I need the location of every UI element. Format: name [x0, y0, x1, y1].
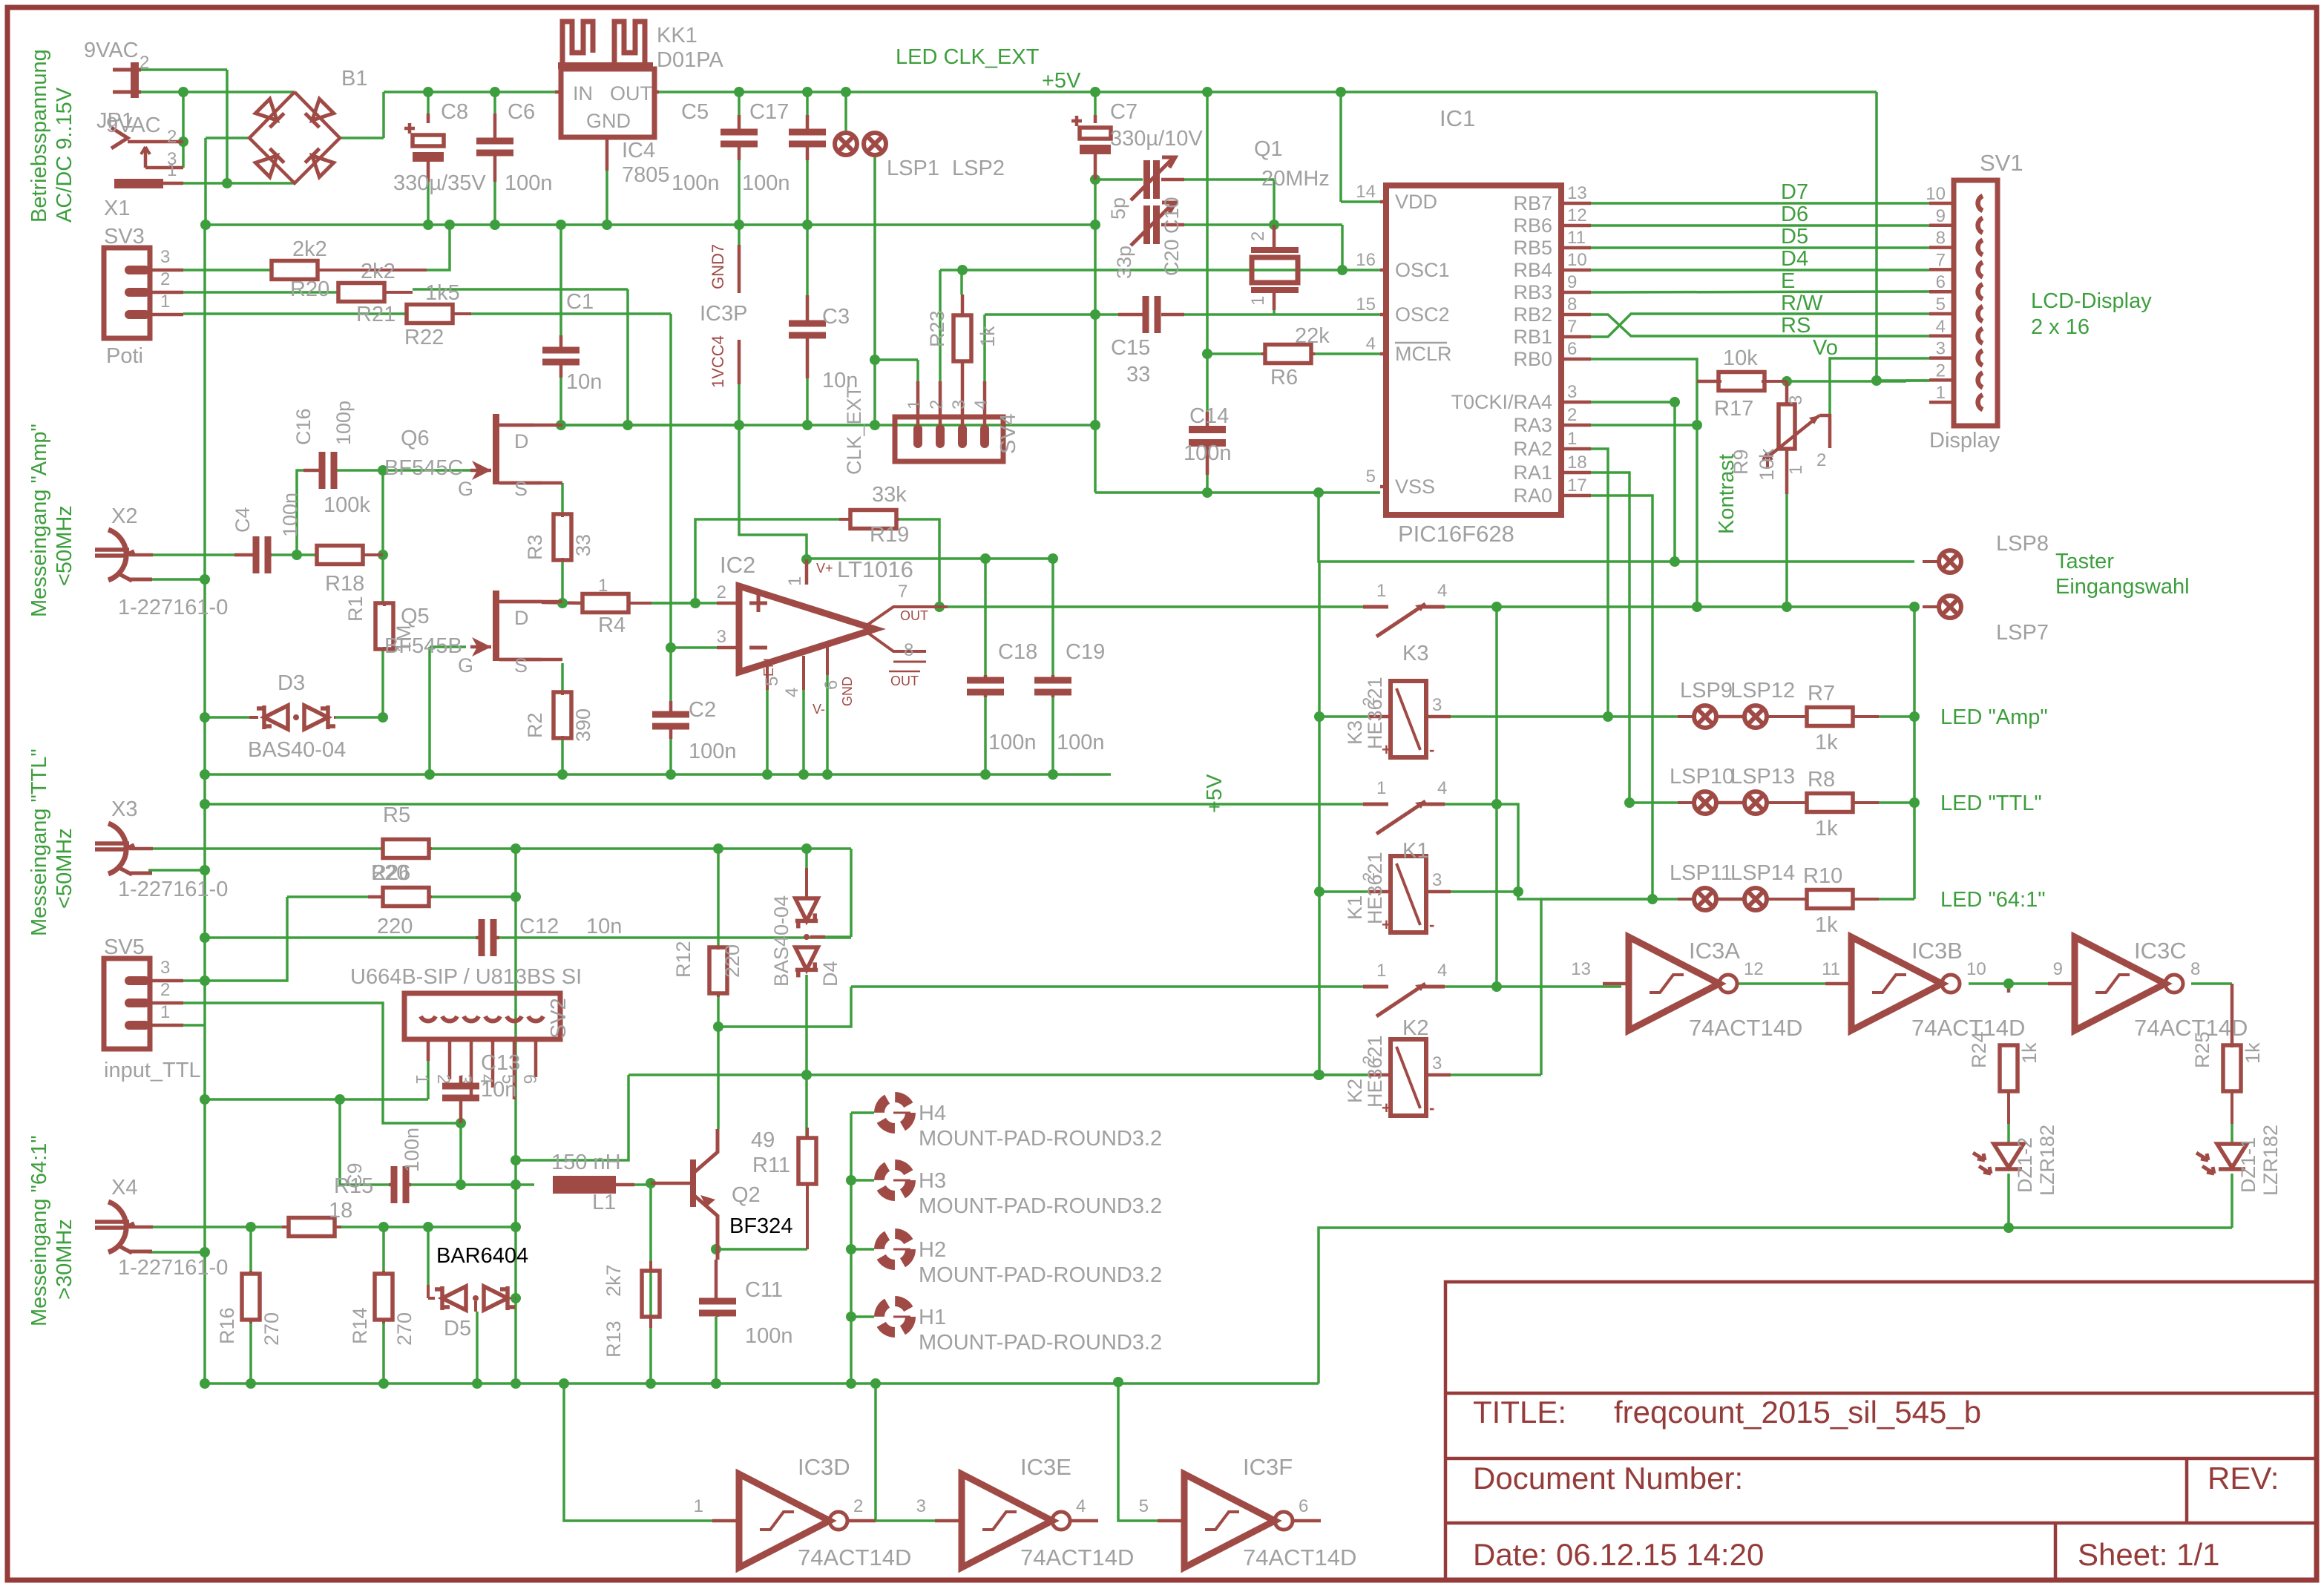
svg-text:3: 3 [1432, 695, 1442, 715]
resistor R26 [383, 888, 429, 907]
LED DZ1-1 [2217, 1144, 2247, 1168]
svg-text:3: 3 [1786, 395, 1806, 405]
svg-text:EN: EN [761, 658, 776, 677]
svg-text:R25: R25 [2191, 1031, 2213, 1068]
svg-text:Betriebsspannung: Betriebsspannung [27, 49, 51, 223]
svg-text:9VAC: 9VAC [106, 113, 161, 137]
inverter IC3B [1851, 937, 1942, 1030]
svg-text:74ACT14D: 74ACT14D [1020, 1544, 1134, 1570]
svg-text:1-227161-0: 1-227161-0 [118, 596, 228, 619]
svg-text:IC4: IC4 [622, 139, 655, 162]
svg-text:RS: RS [1781, 314, 1811, 338]
svg-text:13: 13 [1567, 183, 1587, 203]
svg-text:4: 4 [1437, 961, 1447, 981]
svg-text:C2: C2 [689, 698, 716, 722]
resistor R4 [582, 594, 628, 613]
svg-text:Messeingang "TTL": Messeingang "TTL" [27, 749, 51, 936]
svg-text:100n: 100n [672, 171, 720, 195]
svg-text:9: 9 [2053, 959, 2063, 979]
svg-text:R10: R10 [1803, 864, 1842, 888]
svg-text:11: 11 [1567, 228, 1586, 248]
regulator IC4 [561, 69, 654, 137]
svg-text:R5: R5 [383, 803, 410, 827]
inverter input stubs [1603, 982, 1629, 986]
relay coil K3 [1391, 681, 1426, 757]
svg-text:OUT: OUT [890, 674, 919, 688]
diode D3 [264, 705, 288, 729]
title block [1445, 1282, 2317, 1580]
svg-text:Messeingang "Amp": Messeingang "Amp" [27, 424, 51, 617]
svg-text:G: G [458, 654, 473, 677]
svg-text:RA3: RA3 [1513, 414, 1552, 436]
svg-text:H3: H3 [919, 1169, 946, 1193]
switch K2 [1363, 985, 1388, 989]
svg-text:3: 3 [916, 1496, 926, 1516]
svg-text:LZR182: LZR182 [2259, 1125, 2282, 1196]
svg-text:R/W: R/W [1781, 292, 1823, 315]
svg-text:4: 4 [1437, 581, 1447, 601]
svg-text:REV:: REV: [2208, 1461, 2279, 1496]
svg-text:BAS40-04: BAS40-04 [770, 895, 792, 987]
svg-text:Q5: Q5 [401, 605, 430, 628]
svg-text:100n: 100n [689, 740, 737, 763]
svg-text:LSP2: LSP2 [952, 157, 1005, 180]
transistor Q5 [493, 590, 499, 661]
svg-text:1: 1 [694, 1496, 703, 1516]
svg-text:1: 1 [1567, 429, 1577, 449]
connector X3 [108, 823, 126, 874]
svg-text:C7: C7 [1110, 100, 1138, 124]
resistor R25 [2223, 1045, 2241, 1091]
svg-text:RB5: RB5 [1513, 237, 1552, 259]
svg-text:100n: 100n [401, 1128, 423, 1172]
svg-text:Q6: Q6 [401, 427, 430, 450]
svg-text:12: 12 [1567, 205, 1587, 226]
resistor R23 [953, 315, 971, 361]
svg-text:LSP14: LSP14 [1730, 861, 1795, 885]
svg-text:R15: R15 [334, 1174, 373, 1198]
svg-text:R13: R13 [603, 1320, 625, 1358]
svg-text:1k: 1k [1815, 817, 1838, 840]
svg-text:2: 2 [717, 582, 726, 602]
svg-text:18: 18 [1567, 453, 1587, 473]
resistor R19 [850, 510, 896, 529]
svg-text:Date: 06.12.15 14:20: Date: 06.12.15 14:20 [1473, 1537, 1764, 1572]
svg-text:R6: R6 [1270, 366, 1298, 389]
svg-text:1: 1 [1248, 296, 1268, 306]
svg-text:12: 12 [1744, 959, 1764, 979]
svg-text:15: 15 [1356, 295, 1376, 315]
svg-text:LSP11: LSP11 [1670, 861, 1733, 885]
svg-text:RB1: RB1 [1513, 326, 1552, 348]
svg-text:4: 4 [1437, 778, 1447, 798]
svg-text:+5V: +5V [1042, 69, 1081, 93]
svg-text:1k: 1k [2242, 1042, 2264, 1064]
svg-text:T0CKI/RA4: T0CKI/RA4 [1451, 391, 1552, 413]
svg-text:K3: K3 [1344, 720, 1366, 745]
svg-text:1: 1 [1936, 383, 1946, 403]
svg-text:input_TTL: input_TTL [104, 1059, 201, 1082]
svg-text:9VAC: 9VAC [84, 39, 139, 62]
svg-text:K2: K2 [1402, 1016, 1428, 1040]
svg-text:C18: C18 [998, 640, 1037, 664]
svg-text:D: D [514, 607, 529, 629]
svg-text:220: 220 [372, 861, 408, 885]
svg-text:IC3E: IC3E [1020, 1454, 1071, 1480]
svg-text:2k7: 2k7 [603, 1264, 625, 1297]
svg-text:HE3621: HE3621 [1364, 852, 1386, 924]
switch K1 [1363, 803, 1388, 806]
svg-text:MOUNT-PAD-ROUND3.2: MOUNT-PAD-ROUND3.2 [919, 1331, 1162, 1355]
svg-text:X3: X3 [111, 797, 137, 821]
svg-text:2: 2 [1816, 450, 1826, 470]
svg-text:100k: 100k [324, 493, 370, 517]
svg-text:D4: D4 [819, 961, 841, 987]
svg-text:7805: 7805 [622, 163, 670, 187]
svg-text:CLK_EXT: CLK_EXT [843, 386, 865, 475]
svg-text:4: 4 [1936, 317, 1946, 337]
svg-text:3: 3 [1567, 382, 1577, 402]
svg-text:S: S [514, 654, 528, 677]
resistor R11 [798, 1138, 816, 1184]
svg-text:IC3D: IC3D [798, 1454, 850, 1480]
svg-text:Messeingang "64:1": Messeingang "64:1" [27, 1135, 51, 1326]
svg-text:RB4: RB4 [1513, 259, 1552, 281]
svg-text:LSP8: LSP8 [1996, 532, 2049, 556]
svg-text:5: 5 [1936, 295, 1946, 315]
svg-text:RA1: RA1 [1513, 461, 1552, 484]
svg-text:V+: V+ [816, 561, 833, 576]
svg-text:C17: C17 [749, 100, 789, 124]
svg-text:2: 2 [1936, 361, 1946, 381]
svg-text:-: - [1429, 1099, 1434, 1117]
svg-text:2: 2 [167, 127, 177, 147]
svg-text:1: 1 [785, 576, 805, 586]
diode D4 [795, 898, 818, 928]
svg-text:SV1: SV1 [1980, 150, 2023, 176]
transistor Q2 [690, 1159, 696, 1207]
svg-text:33k: 33k [872, 483, 907, 507]
capacitor C5 [720, 129, 758, 136]
svg-text:100n: 100n [505, 171, 553, 195]
svg-text:8: 8 [1936, 228, 1946, 249]
svg-text:2: 2 [1248, 231, 1268, 241]
svg-text:1: 1 [412, 1074, 432, 1084]
svg-text:330µ/35V: 330µ/35V [393, 171, 486, 195]
capacitor C2 [652, 711, 689, 718]
svg-text:DZ1-1: DZ1-1 [2237, 1137, 2259, 1193]
svg-text:1: 1 [167, 160, 177, 180]
svg-text:C16: C16 [292, 408, 315, 445]
svg-text:VDD: VDD [1395, 191, 1437, 213]
svg-text:HE3621: HE3621 [1364, 677, 1386, 749]
svg-text:K1: K1 [1402, 839, 1428, 863]
crystal Q1 [1252, 257, 1298, 283]
svg-text:220: 220 [377, 915, 413, 938]
resistor R3 [554, 514, 571, 560]
resistor R14 [375, 1274, 393, 1320]
svg-text:1: 1 [1786, 465, 1806, 475]
power pins IC3P [738, 245, 741, 293]
solder pad LSP1 [835, 133, 857, 155]
svg-text:BAS40-04: BAS40-04 [248, 738, 346, 762]
svg-text:Vo: Vo [1813, 336, 1838, 360]
svg-text:D01PA: D01PA [657, 48, 723, 72]
svg-text:AC/DC 9..15V: AC/DC 9..15V [53, 87, 76, 223]
svg-text:U664B-SIP / U813BS SI: U664B-SIP / U813BS SI [350, 965, 582, 989]
svg-text:LSP13: LSP13 [1730, 765, 1795, 789]
svg-text:3: 3 [160, 247, 170, 267]
svg-text:S: S [514, 478, 528, 500]
svg-text:KK1: KK1 [657, 24, 697, 47]
svg-text:X4: X4 [111, 1176, 137, 1200]
svg-text:10: 10 [1966, 959, 1986, 979]
svg-text:Sheet: 1/1: Sheet: 1/1 [2078, 1537, 2219, 1572]
svg-text:B1: B1 [341, 67, 367, 91]
resistor R17 [1719, 372, 1765, 391]
svg-text:C11: C11 [745, 1278, 783, 1302]
svg-text:1-227161-0: 1-227161-0 [118, 878, 228, 901]
svg-text:1: 1 [1376, 581, 1386, 601]
svg-text:100n: 100n [1184, 441, 1232, 465]
svg-text:3: 3 [949, 400, 969, 409]
capacitor C17 [789, 129, 826, 136]
solder pad LSP7 [1939, 596, 1961, 618]
svg-text:H1: H1 [919, 1306, 946, 1329]
svg-text:K1: K1 [1344, 895, 1366, 920]
svg-text:10n: 10n [586, 915, 622, 938]
svg-text:R1: R1 [344, 596, 367, 622]
wires [141, 68, 227, 71]
svg-text:5: 5 [1366, 467, 1376, 487]
svg-text:1: 1 [1376, 778, 1386, 798]
diode D5 [442, 1286, 466, 1310]
svg-text:D7: D7 [1781, 180, 1808, 204]
svg-text:4: 4 [1076, 1496, 1086, 1516]
svg-text:X1: X1 [104, 197, 130, 220]
microcontroller IC1 [1386, 185, 1561, 515]
trimmer C10 [1143, 160, 1150, 199]
svg-text:14: 14 [1356, 182, 1376, 202]
svg-text:<50MHz: <50MHz [53, 828, 76, 909]
svg-text:390: 390 [572, 708, 594, 742]
svg-text:MCLR: MCLR [1395, 343, 1452, 365]
connector X2 [108, 530, 126, 580]
connector SV2 [404, 993, 560, 1039]
svg-text:RB3: RB3 [1513, 281, 1552, 303]
svg-text:IC3C: IC3C [2134, 938, 2187, 964]
svg-text:9: 9 [1936, 206, 1946, 226]
svg-text:2 x 16: 2 x 16 [2031, 315, 2090, 339]
svg-text:RA2: RA2 [1513, 438, 1552, 460]
svg-text:3: 3 [1936, 339, 1946, 359]
svg-text:150 nH: 150 nH [551, 1151, 621, 1174]
svg-text:6: 6 [1936, 272, 1946, 292]
svg-text:-: - [1429, 915, 1434, 934]
resistor R7 [1807, 708, 1853, 726]
resistor R12 [709, 947, 727, 993]
svg-text:2k2: 2k2 [292, 237, 327, 261]
svg-text:VSS: VSS [1395, 476, 1435, 498]
svg-text:100n: 100n [742, 171, 790, 195]
svg-text:C1: C1 [566, 290, 594, 314]
svg-text:RB2: RB2 [1513, 303, 1552, 326]
capacitor C12 [479, 919, 485, 956]
svg-text:OUT: OUT [610, 82, 652, 105]
svg-text:33: 33 [1126, 363, 1150, 386]
svg-text:1: 1 [905, 400, 925, 409]
svg-text:1: 1 [1376, 961, 1386, 981]
svg-text:D5: D5 [444, 1317, 471, 1340]
svg-text:MOUNT-PAD-ROUND3.2: MOUNT-PAD-ROUND3.2 [919, 1263, 1162, 1287]
svg-text:RB7: RB7 [1513, 192, 1552, 214]
svg-text:LSP1: LSP1 [887, 157, 939, 180]
svg-text:5: 5 [1139, 1496, 1149, 1516]
svg-text:Taster: Taster [2055, 550, 2114, 573]
resistor R6 [1265, 345, 1311, 363]
svg-text:3: 3 [1432, 870, 1442, 890]
svg-text:4: 4 [782, 688, 802, 697]
capacitor C15 [1143, 296, 1149, 333]
svg-text:LED CLK_EXT: LED CLK_EXT [896, 45, 1040, 69]
svg-text:2k2: 2k2 [361, 260, 395, 283]
svg-text:SV5: SV5 [104, 935, 145, 959]
svg-text:LSP9: LSP9 [1680, 679, 1733, 703]
svg-text:2: 2 [160, 269, 170, 289]
svg-text:1k: 1k [1815, 913, 1838, 937]
svg-text:3: 3 [455, 1074, 475, 1084]
svg-text:49: 49 [751, 1128, 775, 1152]
svg-text:18: 18 [329, 1199, 352, 1223]
resistor R5 [383, 840, 429, 858]
capacitor C9 [391, 1166, 398, 1203]
svg-text:6: 6 [1299, 1496, 1308, 1516]
svg-text:C8: C8 [441, 100, 468, 124]
svg-text:GND: GND [840, 677, 855, 706]
inductor L1 [553, 1176, 616, 1194]
svg-text:D: D [514, 430, 529, 453]
connector SV1 [1954, 180, 1998, 426]
svg-text:HE3621: HE3621 [1364, 1035, 1386, 1108]
resistor R18 [317, 546, 363, 565]
svg-text:E: E [1781, 269, 1795, 293]
svg-text:4: 4 [971, 400, 991, 409]
solder pad LSP14 [1744, 888, 1767, 910]
svg-text:1M: 1M [393, 625, 415, 653]
solder pad LSP13 [1744, 792, 1767, 814]
heatsink KK1 [562, 22, 645, 68]
connector SV3 [104, 248, 150, 338]
svg-text:330µ/10V: 330µ/10V [1110, 127, 1203, 151]
svg-text:2: 2 [139, 53, 149, 73]
svg-text:2: 2 [1359, 697, 1378, 706]
svg-text:20MHz: 20MHz [1261, 167, 1330, 191]
svg-text:LED "64:1": LED "64:1" [1940, 888, 2046, 912]
capacitor C6 [476, 138, 513, 145]
svg-text:LED "Amp": LED "Amp" [1940, 705, 2048, 729]
capacitor C11 [699, 1298, 736, 1305]
svg-text:Q2: Q2 [732, 1183, 761, 1207]
solder pad LSP2 [864, 133, 886, 155]
svg-text:270: 270 [393, 1312, 416, 1346]
svg-text:1VCC4: 1VCC4 [709, 335, 727, 388]
svg-text:R12: R12 [672, 941, 695, 978]
svg-text:3: 3 [160, 958, 170, 978]
svg-text:IC3P: IC3P [700, 302, 747, 326]
svg-text:-: - [1429, 740, 1434, 759]
svg-text:BF324: BF324 [729, 1214, 792, 1238]
resistor R8 [1807, 794, 1853, 812]
svg-text:74ACT14D: 74ACT14D [798, 1544, 911, 1570]
svg-text:R7: R7 [1808, 682, 1835, 705]
connector JP1 [131, 62, 139, 98]
solder pad LSP11 [1694, 888, 1716, 910]
svg-text:H2: H2 [919, 1238, 946, 1262]
svg-text:<50MHz: <50MHz [53, 505, 76, 586]
svg-text:4: 4 [1366, 334, 1376, 354]
trimmer C20 [1143, 205, 1150, 244]
svg-text:1: 1 [160, 1002, 170, 1022]
svg-text:33: 33 [572, 534, 594, 556]
svg-text:10k: 10k [1756, 448, 1778, 481]
svg-text:IC2: IC2 [720, 552, 755, 578]
inverter IC3A [1629, 937, 1719, 1030]
svg-text:100n: 100n [745, 1324, 793, 1348]
svg-text:C20 C10: C20 C10 [1161, 197, 1183, 276]
svg-text:+5V: +5V [1203, 774, 1227, 813]
comparator IC2 [739, 586, 875, 672]
svg-text:C15: C15 [1111, 336, 1150, 360]
svg-text:74ACT14D: 74ACT14D [1689, 1015, 1802, 1041]
inverter IC3C [2075, 937, 2165, 1030]
resistor R15 [289, 1218, 335, 1237]
resistor R20 [272, 261, 318, 280]
svg-text:K2: K2 [1344, 1079, 1366, 1103]
inverter IC3F [1184, 1474, 1275, 1567]
mount pad H4 [879, 1097, 910, 1128]
svg-text:OSC1: OSC1 [1395, 259, 1450, 281]
svg-text:LSP10: LSP10 [1670, 765, 1734, 789]
svg-text:16: 16 [1356, 250, 1376, 270]
svg-text:IN: IN [573, 82, 593, 105]
svg-text:1k: 1k [2018, 1042, 2041, 1064]
svg-text:IC3A: IC3A [1689, 938, 1740, 964]
svg-text:5: 5 [762, 677, 782, 686]
svg-text:11: 11 [1822, 959, 1840, 979]
svg-text:C3: C3 [822, 305, 850, 329]
solder pad LSP12 [1744, 705, 1767, 728]
svg-text:Eingangswahl: Eingangswahl [2055, 575, 2190, 599]
capacitor C18 [967, 677, 1004, 684]
svg-text:LZR182: LZR182 [2036, 1125, 2058, 1196]
svg-text:R21: R21 [356, 303, 395, 326]
svg-text:SV4: SV4 [997, 413, 1020, 454]
svg-text:2: 2 [853, 1496, 863, 1516]
svg-text:8: 8 [1567, 295, 1577, 315]
svg-text:2: 2 [433, 1074, 453, 1084]
svg-text:R22: R22 [404, 326, 444, 349]
svg-text:6: 6 [519, 1074, 539, 1084]
resistor R16 [242, 1274, 260, 1320]
svg-text:C12: C12 [519, 915, 559, 938]
svg-text:Q1: Q1 [1254, 137, 1283, 161]
resistor R2 [554, 692, 571, 738]
svg-text:7: 7 [898, 582, 907, 602]
capacitor C19 [1034, 677, 1071, 684]
svg-text:74ACT14D: 74ACT14D [1243, 1544, 1356, 1570]
connector X1 [111, 128, 128, 148]
svg-text:22k: 22k [1295, 324, 1330, 348]
